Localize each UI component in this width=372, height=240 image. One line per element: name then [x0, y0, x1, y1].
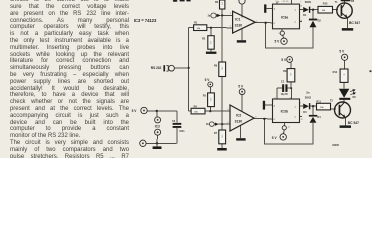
svg-text:5 V: 5 V	[205, 78, 211, 82]
svg-text:47k: 47k	[209, 41, 211, 44]
svg-text:C3: C3	[172, 120, 176, 123]
svg-text:3130: 3130	[235, 119, 243, 123]
svg-text:D2: D2	[318, 19, 322, 22]
svg-text:R11: R11	[316, 100, 321, 103]
svg-text:5 V: 5 V	[238, 84, 244, 88]
svg-text:100n: 100n	[179, 131, 185, 133]
svg-text:D4: D4	[317, 116, 321, 119]
svg-text:IC3b: IC3b	[281, 110, 288, 114]
svg-text:10µ 6V: 10µ 6V	[281, 94, 289, 96]
svg-text:Q: Q	[295, 106, 297, 108]
svg-text:6V 15: 6V 15	[283, 1, 289, 3]
svg-text:R6: R6	[214, 65, 218, 68]
svg-text:T1: T1	[335, 1, 339, 4]
svg-text:B: B	[274, 23, 276, 25]
svg-text:RS 232: RS 232	[151, 66, 162, 70]
svg-text:IC1: IC1	[235, 17, 240, 21]
svg-text:T2: T2	[330, 99, 334, 102]
svg-text:BC 547: BC 547	[349, 21, 360, 25]
svg-text:R9: R9	[283, 70, 287, 73]
svg-text:5 V: 5 V	[339, 49, 345, 53]
svg-text:47k: 47k	[221, 2, 223, 5]
svg-text:A: A	[274, 7, 276, 10]
svg-text:10µ: 10µ	[275, 1, 279, 3]
svg-text:Q: Q	[294, 22, 296, 24]
svg-text:R12: R12	[333, 71, 338, 74]
svg-text:84036: 84036	[332, 144, 339, 147]
svg-text:Q: Q	[294, 117, 296, 119]
svg-text:D3: D3	[303, 111, 307, 114]
svg-text:A: A	[274, 104, 276, 107]
svg-text:7: 7	[300, 1, 302, 3]
svg-text:DUS: DUS	[305, 0, 311, 4]
svg-text:IC3: IC3	[155, 125, 160, 129]
svg-text:3: 3	[227, 109, 229, 111]
svg-text:D1: D1	[303, 14, 307, 17]
svg-text:IC3 = 74123: IC3 = 74123	[134, 18, 157, 23]
svg-text:12: 12	[301, 119, 304, 121]
svg-text:3130: 3130	[235, 23, 243, 27]
svg-text:11: 11	[288, 126, 291, 128]
svg-text:4: 4	[301, 20, 303, 22]
svg-text:2x: 2x	[306, 90, 310, 94]
svg-text:5 V: 5 V	[272, 136, 278, 140]
svg-text:47k: 47k	[221, 135, 223, 138]
svg-text:5 V: 5 V	[132, 109, 138, 113]
svg-text:R7: R7	[214, 132, 218, 135]
svg-text:5: 5	[300, 102, 302, 104]
svg-text:DUS: DUS	[305, 95, 311, 99]
svg-text:13: 13	[300, 5, 303, 7]
svg-text:1k: 1k	[342, 74, 344, 76]
svg-text:D5: D5	[351, 0, 355, 3]
svg-text:C2: C2	[281, 81, 285, 84]
svg-text:Q: Q	[295, 10, 297, 12]
svg-text:5 V: 5 V	[281, 58, 287, 62]
svg-text:R2: R2	[202, 38, 206, 41]
svg-text:22k: 22k	[221, 67, 223, 70]
svg-text:5 V: 5 V	[275, 40, 281, 44]
svg-text:B: B	[274, 119, 276, 121]
svg-text:2b: 2b	[206, 123, 209, 126]
svg-text:10k: 10k	[289, 73, 291, 76]
svg-text:47k: 47k	[209, 98, 211, 101]
svg-text:IC2: IC2	[236, 113, 241, 117]
svg-text:R10: R10	[323, 3, 328, 6]
svg-text:IC3a: IC3a	[281, 16, 288, 20]
svg-text:D6: D6	[353, 96, 357, 99]
svg-text:R5: R5	[203, 94, 207, 97]
svg-text:R3: R3	[215, 1, 219, 4]
svg-text:BC 547: BC 547	[348, 121, 359, 125]
svg-text:R1: R1	[194, 21, 198, 24]
